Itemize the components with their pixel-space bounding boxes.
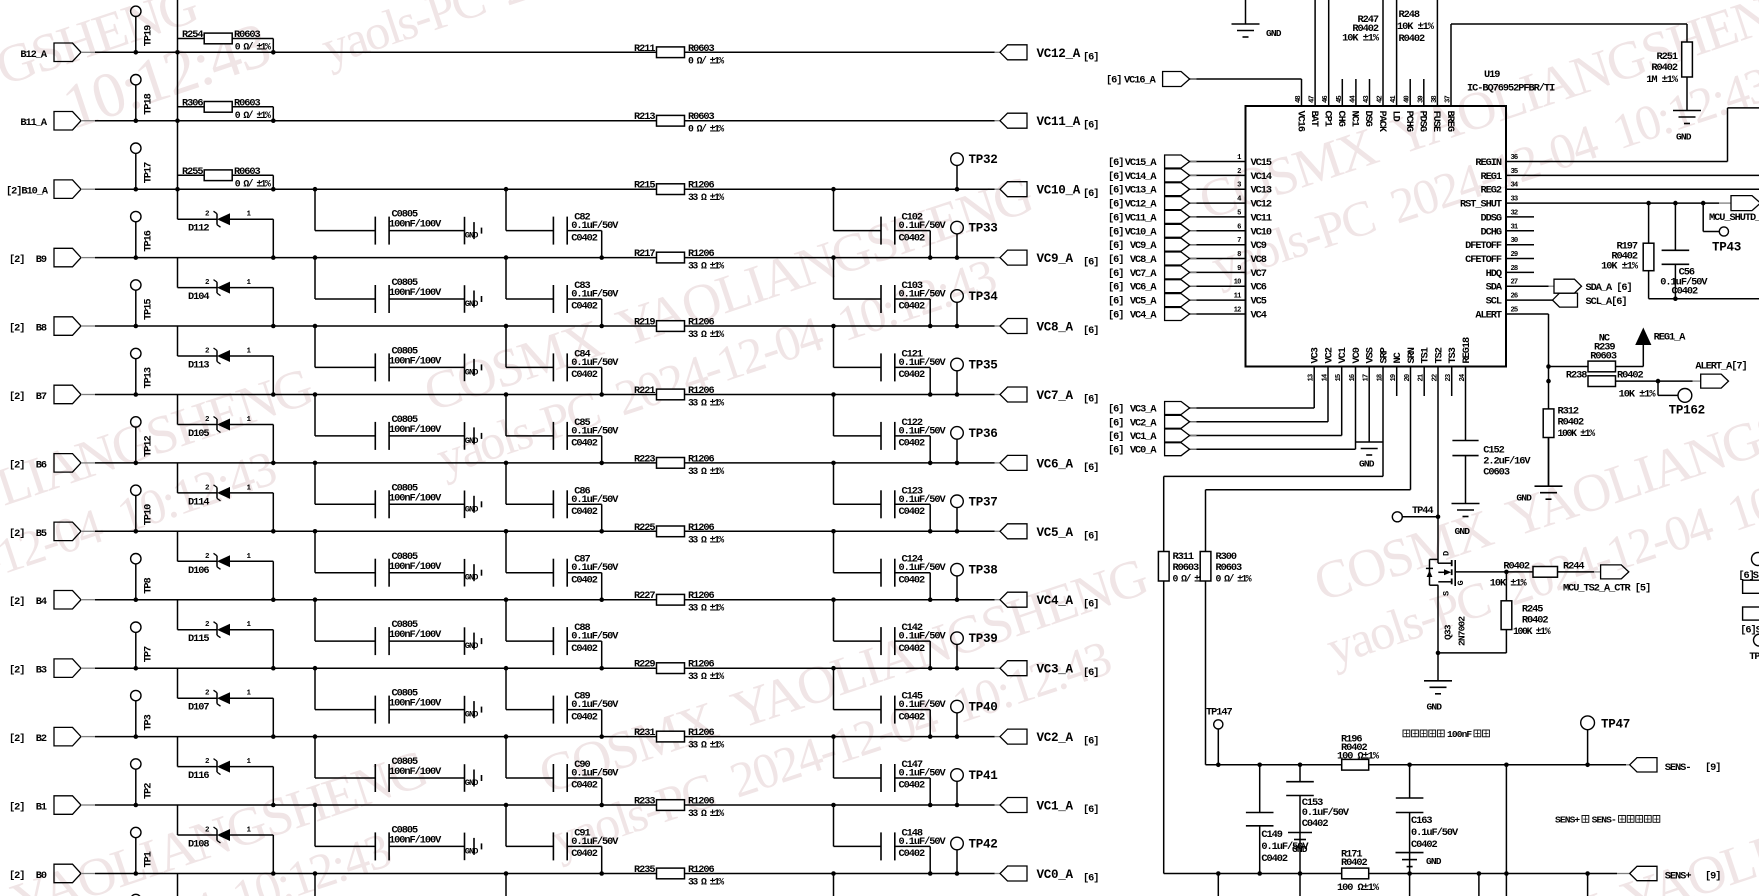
svg-text:TP43: TP43 [1712, 241, 1741, 255]
svg-text:TP38: TP38 [969, 564, 998, 578]
svg-text:R0402: R0402 [1522, 615, 1549, 627]
svg-text:9: 9 [1237, 265, 1241, 273]
svg-text:10: 10 [1234, 279, 1241, 287]
svg-text:B0: B0 [36, 870, 47, 882]
svg-text:TP17: TP17 [143, 162, 155, 183]
svg-text:REG1_A: REG1_A [1654, 331, 1687, 343]
svg-text:D108: D108 [188, 839, 209, 851]
svg-text:0 Ω/ ±1%: 0 Ω/ ±1% [688, 55, 724, 66]
svg-text:GND: GND [465, 710, 479, 720]
svg-text:R1206: R1206 [688, 864, 715, 876]
svg-text:0.1uF/50V: 0.1uF/50V [899, 836, 947, 848]
svg-text:[6]: [6] [1108, 404, 1123, 416]
svg-text:R254: R254 [182, 29, 203, 41]
svg-text:[6]: [6] [1108, 226, 1123, 238]
svg-text:REGIN: REGIN [1475, 157, 1502, 169]
svg-text:[6]: [6] [1106, 75, 1121, 87]
svg-text:TP33: TP33 [969, 222, 998, 236]
svg-text:R0402: R0402 [1617, 370, 1644, 382]
svg-text:C0402: C0402 [571, 369, 598, 381]
svg-text:[6]: [6] [1108, 185, 1123, 197]
svg-text:100nF/100V: 100nF/100V [389, 492, 442, 504]
svg-text:C0402: C0402 [899, 780, 926, 792]
svg-text:REG18: REG18 [1461, 337, 1473, 364]
svg-text:D115: D115 [188, 633, 209, 645]
svg-text:[2]: [2] [9, 596, 24, 608]
svg-text:0 Ω/ ±1%: 0 Ω/ ±1% [235, 178, 271, 189]
svg-text:VC9: VC9 [1251, 240, 1267, 252]
svg-text:33 Ω ±1%: 33 Ω ±1% [688, 877, 724, 888]
svg-text:1: 1 [247, 211, 252, 219]
svg-text:[6]: [6] [1108, 296, 1123, 308]
svg-text:[6]: [6] [1108, 268, 1123, 280]
svg-text:0.1uF/50V: 0.1uF/50V [571, 699, 619, 711]
svg-text:VC7_A: VC7_A [1037, 389, 1074, 403]
svg-text:R211: R211 [634, 43, 655, 55]
svg-text:DCHG: DCHG [1480, 226, 1501, 238]
svg-text:R0603: R0603 [234, 166, 261, 178]
svg-text:TS1: TS1 [1420, 347, 1432, 363]
svg-text:BAT: BAT [1308, 111, 1320, 127]
svg-text:ALERT_A[7]: ALERT_A[7] [1695, 361, 1746, 373]
svg-text:R0603: R0603 [688, 111, 715, 123]
svg-text:6: 6 [1237, 223, 1241, 231]
svg-text:VC1_A: VC1_A [1037, 800, 1074, 814]
svg-text:[2]: [2] [9, 733, 24, 745]
svg-text:VC2_A: VC2_A [1037, 731, 1074, 745]
svg-text:33 Ω ±1%: 33 Ω ±1% [688, 329, 724, 340]
svg-text:[6]: [6] [1108, 171, 1123, 183]
svg-text:VC13: VC13 [1251, 185, 1272, 197]
svg-text:VC1: VC1 [1337, 347, 1349, 363]
svg-text:[6]: [6] [1083, 257, 1098, 269]
svg-text:[6]: [6] [1108, 157, 1123, 169]
svg-text:2: 2 [205, 553, 210, 561]
svg-text:R1206: R1206 [688, 385, 715, 397]
svg-text:TP35: TP35 [969, 359, 998, 373]
svg-text:TP10: TP10 [143, 504, 155, 525]
svg-text:D107: D107 [188, 702, 209, 714]
svg-text:VC15: VC15 [1251, 157, 1272, 169]
svg-text:C0402: C0402 [899, 369, 926, 381]
svg-text:[6]: [6] [1108, 240, 1123, 252]
svg-text:D113: D113 [188, 360, 209, 372]
svg-text:2: 2 [205, 348, 210, 356]
svg-text:1: 1 [247, 279, 252, 287]
svg-text:C0402: C0402 [899, 711, 926, 723]
svg-text:C0402: C0402 [571, 574, 598, 586]
svg-text:PCHG: PCHG [1403, 111, 1415, 132]
svg-text:[6]: [6] [1108, 212, 1123, 224]
svg-text:VC7_A: VC7_A [1130, 268, 1158, 280]
svg-text:[6]: [6] [1108, 417, 1123, 429]
svg-text:B6: B6 [36, 459, 47, 471]
svg-text:R244: R244 [1563, 561, 1584, 573]
svg-text:1: 1 [247, 621, 252, 629]
svg-text:VC0_A: VC0_A [1130, 445, 1158, 457]
svg-text:VC4_A: VC4_A [1130, 310, 1158, 322]
svg-text:TP37: TP37 [969, 495, 998, 509]
svg-text:HDQ: HDQ [1486, 268, 1502, 280]
svg-text:VC16: VC16 [1294, 111, 1306, 132]
svg-text:2: 2 [205, 279, 210, 287]
svg-text:B1: B1 [36, 802, 47, 814]
svg-text:C0402: C0402 [899, 848, 926, 860]
svg-text:GND: GND [1427, 702, 1443, 713]
svg-text:R231: R231 [634, 727, 655, 739]
svg-text:0.1uF/50V: 0.1uF/50V [1411, 827, 1459, 839]
svg-text:2: 2 [205, 690, 210, 698]
svg-text:VC14_A: VC14_A [1125, 171, 1158, 183]
svg-text:R213: R213 [634, 111, 655, 123]
svg-text:0 Ω/ ±1%: 0 Ω/ ±1% [235, 110, 271, 121]
svg-text:VC3: VC3 [1310, 347, 1322, 363]
svg-text:B5: B5 [36, 528, 47, 540]
svg-text:[6]: [6] [1083, 736, 1098, 748]
svg-text:BREG: BREG [1444, 111, 1456, 132]
svg-text:[2]: [2] [9, 323, 24, 335]
svg-text:33 Ω ±1%: 33 Ω ±1% [688, 740, 724, 751]
svg-text:0.1uF/50V: 0.1uF/50V [899, 220, 947, 232]
svg-text:C0402: C0402 [571, 506, 598, 518]
svg-text:100nF: 100nF [1447, 729, 1472, 740]
svg-text:TP2: TP2 [143, 783, 155, 799]
svg-text:VC6: VC6 [1251, 282, 1267, 294]
svg-text:2: 2 [205, 211, 210, 219]
svg-text:TP: TP [1749, 651, 1759, 663]
svg-text:[2]: [2] [9, 870, 24, 882]
svg-text:G: G [1456, 581, 1466, 586]
svg-text:U19: U19 [1484, 69, 1500, 81]
svg-text:R1206: R1206 [688, 659, 715, 671]
svg-text:D106: D106 [188, 565, 209, 577]
svg-text:VC14: VC14 [1251, 171, 1272, 183]
svg-text:33 Ω ±1%: 33 Ω ±1% [688, 671, 724, 682]
svg-text:VC1_A: VC1_A [1130, 431, 1158, 443]
svg-text:[6]: [6] [1108, 431, 1123, 443]
svg-text:0.1uF/50V: 0.1uF/50V [899, 289, 947, 301]
svg-text:R1206: R1206 [688, 727, 715, 739]
svg-text:100nF/100V: 100nF/100V [389, 629, 442, 641]
svg-text:SCL_A[6]: SCL_A[6] [1586, 296, 1627, 308]
svg-text:R0603: R0603 [1216, 562, 1243, 574]
svg-text:SDA: SDA [1486, 282, 1503, 294]
svg-text:VC10_A: VC10_A [1037, 184, 1081, 198]
svg-text:5: 5 [1237, 209, 1241, 217]
svg-text:C0402: C0402 [1411, 839, 1438, 851]
svg-text:R1206: R1206 [688, 590, 715, 602]
svg-text:C163: C163 [1411, 815, 1432, 827]
svg-text:TP39: TP39 [969, 632, 998, 646]
svg-text:[6]: [6] [1108, 199, 1123, 211]
svg-text:VC5_A: VC5_A [1037, 526, 1074, 540]
svg-text:[2]: [2] [9, 802, 24, 814]
svg-text:VC0: VC0 [1351, 347, 1363, 363]
svg-text:2: 2 [205, 827, 210, 835]
svg-text:2: 2 [1237, 168, 1241, 176]
svg-text:0.1uF/50V: 0.1uF/50V [571, 836, 619, 848]
svg-text:ALERT: ALERT [1475, 310, 1502, 322]
svg-text:0.1uF/50V: 0.1uF/50V [899, 494, 947, 506]
svg-text:D: D [1442, 551, 1452, 556]
svg-text:[6]: [6] [1083, 394, 1098, 406]
svg-text:C0402: C0402 [899, 574, 926, 586]
svg-text:100 Ω±1%: 100 Ω±1% [1337, 750, 1380, 762]
svg-text:VC3_A: VC3_A [1130, 404, 1158, 416]
svg-text:TP34: TP34 [969, 290, 999, 304]
svg-text:100nF/100V: 100nF/100V [389, 219, 442, 231]
svg-text:R0402: R0402 [1399, 33, 1426, 45]
svg-text:TP8: TP8 [143, 577, 155, 593]
svg-text:0.1uF/50V: 0.1uF/50V [571, 768, 619, 780]
svg-text:TP18: TP18 [143, 93, 155, 114]
svg-text:B12_A: B12_A [20, 49, 48, 61]
svg-text:R217: R217 [634, 248, 655, 260]
svg-text:C0402: C0402 [571, 232, 598, 244]
svg-text:0.1uF/50V: 0.1uF/50V [899, 631, 947, 643]
svg-text:SCL: SCL [1486, 296, 1502, 308]
svg-text:100nF/100V: 100nF/100V [389, 287, 442, 299]
svg-text:100nF/100V: 100nF/100V [389, 766, 442, 778]
svg-text:R0402: R0402 [1341, 857, 1368, 869]
svg-text:C0603: C0603 [1483, 466, 1510, 478]
svg-text:VC4: VC4 [1251, 310, 1267, 322]
svg-text:D105: D105 [188, 428, 209, 440]
svg-text:33 Ω ±1%: 33 Ω ±1% [688, 808, 724, 819]
svg-text:100nF/100V: 100nF/100V [389, 835, 442, 847]
svg-text:TP42: TP42 [969, 838, 998, 852]
svg-text:B11_A: B11_A [20, 117, 48, 129]
svg-text:0 Ω/ ±1%: 0 Ω/ ±1% [235, 42, 271, 53]
svg-text:LD: LD [1389, 111, 1401, 122]
svg-text:CP1: CP1 [1322, 111, 1334, 127]
svg-text:R0603: R0603 [234, 29, 261, 41]
svg-text:TP12: TP12 [143, 436, 155, 457]
svg-text:VC0_A: VC0_A [1037, 868, 1074, 882]
svg-text:VC5_A: VC5_A [1130, 296, 1158, 308]
svg-text:REG2: REG2 [1480, 185, 1501, 197]
svg-text:100K ±1%: 100K ±1% [1513, 626, 1551, 637]
svg-text:R227: R227 [634, 590, 655, 602]
svg-text:10K ±1%: 10K ±1% [1490, 578, 1528, 590]
svg-text:DSG: DSG [1362, 111, 1374, 127]
svg-text:1: 1 [247, 758, 252, 766]
svg-text:TP13: TP13 [143, 367, 155, 388]
svg-text:0.1uF/50V: 0.1uF/50V [899, 425, 947, 437]
svg-text:B9: B9 [36, 254, 47, 266]
svg-text:B7: B7 [36, 391, 47, 403]
svg-text:C0402: C0402 [1302, 818, 1329, 830]
svg-text:GND: GND [1426, 856, 1442, 867]
svg-text:VC13_A: VC13_A [1125, 185, 1158, 197]
svg-text:C0402: C0402 [571, 848, 598, 860]
svg-text:VC4_A: VC4_A [1037, 594, 1074, 608]
svg-text:TP47: TP47 [1601, 718, 1630, 732]
svg-text:FUSE: FUSE [1430, 111, 1442, 132]
svg-text:GND: GND [465, 504, 479, 514]
svg-text:0 Ω/ ±1%: 0 Ω/ ±1% [688, 124, 724, 135]
svg-text:0.1uF/50V: 0.1uF/50V [899, 699, 947, 711]
svg-text:GND: GND [1516, 493, 1532, 504]
svg-text:C0402: C0402 [899, 232, 926, 244]
svg-text:GND: GND [1455, 526, 1471, 537]
svg-text:R255: R255 [182, 166, 203, 178]
svg-text:[2]: [2] [9, 254, 24, 266]
svg-text:TP36: TP36 [969, 427, 998, 441]
svg-text:R0402: R0402 [1503, 561, 1530, 573]
svg-text:VC11: VC11 [1251, 212, 1272, 224]
svg-text:[9]: [9] [1705, 762, 1720, 774]
svg-text:[6]: [6] [1083, 325, 1098, 337]
svg-text:VC9_A: VC9_A [1037, 252, 1074, 266]
svg-text:VSS: VSS [1365, 347, 1377, 363]
svg-text:[6]: [6] [1083, 120, 1098, 132]
svg-text:R1206: R1206 [688, 522, 715, 534]
svg-text:8: 8 [1237, 251, 1241, 259]
svg-text:R221: R221 [634, 385, 655, 397]
svg-text:10K ±1%: 10K ±1% [1619, 389, 1657, 401]
svg-text:CHG: CHG [1335, 111, 1347, 127]
svg-text:VC2_A: VC2_A [1130, 417, 1158, 429]
svg-text:C0402: C0402 [571, 301, 598, 313]
svg-text:RST_SHUT: RST_SHUT [1460, 199, 1502, 211]
svg-text:CFETOFF: CFETOFF [1465, 254, 1502, 266]
svg-text:C0402: C0402 [571, 711, 598, 723]
svg-text:VC12_A: VC12_A [1125, 199, 1158, 211]
svg-text:[6]: [6] [1108, 310, 1123, 322]
svg-text:VC7: VC7 [1251, 268, 1267, 280]
svg-text:R1206: R1206 [688, 180, 715, 192]
svg-text:[2]: [2] [9, 528, 24, 540]
svg-text:R1206: R1206 [688, 317, 715, 329]
svg-text:VC8: VC8 [1251, 254, 1267, 266]
svg-text:33 Ω ±1%: 33 Ω ±1% [688, 466, 724, 477]
svg-text:[6]: [6] [1108, 282, 1123, 294]
svg-text:[2]: [2] [9, 391, 24, 403]
svg-text:TP32: TP32 [969, 153, 998, 167]
svg-text:2: 2 [205, 416, 210, 424]
svg-text:TP44: TP44 [1412, 505, 1433, 517]
svg-text:D104: D104 [188, 291, 209, 303]
svg-text:B2: B2 [36, 733, 47, 745]
svg-text:R229: R229 [634, 659, 655, 671]
svg-text:DFETOFF: DFETOFF [1465, 240, 1502, 252]
svg-text:R0603: R0603 [688, 43, 715, 55]
svg-text:C149: C149 [1261, 829, 1282, 841]
svg-text:IC-BQ76952PFBR/TI: IC-BQ76952PFBR/TI [1467, 83, 1555, 95]
svg-text:DDSG: DDSG [1480, 212, 1501, 224]
svg-text:TP7: TP7 [143, 646, 155, 662]
svg-text:VC15_A: VC15_A [1125, 157, 1158, 169]
svg-text:VC11_A: VC11_A [1037, 115, 1081, 129]
svg-text:GND: GND [465, 846, 479, 856]
svg-text:R235: R235 [634, 864, 655, 876]
svg-text:R0603: R0603 [1590, 351, 1617, 363]
svg-text:S: S [1442, 591, 1452, 596]
svg-text:VC3_A: VC3_A [1037, 663, 1074, 677]
svg-text:1: 1 [247, 827, 252, 835]
svg-text:VC6_A: VC6_A [1130, 282, 1158, 294]
svg-text:VC10: VC10 [1251, 226, 1272, 238]
svg-text:1: 1 [247, 553, 252, 561]
svg-text:B8: B8 [36, 323, 47, 335]
svg-text:R219: R219 [634, 317, 655, 329]
svg-text:0.1uF/50V: 0.1uF/50V [571, 425, 619, 437]
svg-text:GND: GND [465, 231, 479, 241]
svg-text:100 Ω±1%: 100 Ω±1% [1337, 882, 1380, 894]
svg-text:[6]: [6] [1083, 530, 1098, 542]
svg-text:0.1uF/50V: 0.1uF/50V [571, 220, 619, 232]
svg-text:GND: GND [1266, 28, 1282, 39]
svg-text:VC10_A: VC10_A [1125, 226, 1158, 238]
svg-text:GND: GND [465, 778, 479, 788]
svg-text:TP16: TP16 [143, 230, 155, 251]
svg-text:100nF/100V: 100nF/100V [389, 424, 442, 436]
svg-text:R0402: R0402 [1651, 62, 1678, 74]
svg-text:[2]: [2] [9, 459, 24, 471]
svg-text:REG1: REG1 [1480, 171, 1501, 183]
svg-text:0 Ω/ ±1%: 0 Ω/ ±1% [1216, 573, 1252, 584]
svg-text:C0402: C0402 [571, 438, 598, 450]
svg-text:33 Ω ±1%: 33 Ω ±1% [688, 192, 724, 203]
svg-text:0.1uF/50V: 0.1uF/50V [571, 562, 619, 574]
svg-text:[6]: [6] [1083, 462, 1098, 474]
svg-text:[6]: [6] [1083, 51, 1098, 63]
svg-text:VC11_A: VC11_A [1125, 212, 1158, 224]
svg-text:VC8_A: VC8_A [1130, 254, 1158, 266]
svg-text:C0402: C0402 [571, 643, 598, 655]
svg-text:TP19: TP19 [143, 25, 155, 46]
svg-text:TP162: TP162 [1669, 404, 1705, 418]
svg-text:[6]: [6] [1083, 188, 1098, 200]
svg-text:1M ±1%: 1M ±1% [1646, 74, 1679, 86]
svg-text:VC12: VC12 [1251, 199, 1272, 211]
svg-text:VC8_A: VC8_A [1037, 321, 1074, 335]
svg-text:TS2: TS2 [1433, 347, 1445, 363]
svg-text:MCU_SHUTD_: MCU_SHUTD_ [1709, 212, 1759, 224]
svg-text:0.1uF/50V: 0.1uF/50V [571, 357, 619, 369]
svg-text:SRP: SRP [1378, 347, 1390, 363]
svg-text:[9]: [9] [1705, 871, 1720, 883]
svg-text:D116: D116 [188, 770, 209, 782]
svg-text:C0402: C0402 [1672, 285, 1699, 297]
svg-text:[6]: [6] [1108, 254, 1123, 266]
svg-text:NC: NC [1392, 352, 1404, 363]
svg-text:GND: GND [465, 436, 479, 446]
svg-text:D112: D112 [188, 223, 209, 235]
svg-text:2N7002: 2N7002 [1457, 616, 1468, 646]
svg-text:33 Ω ±1%: 33 Ω ±1% [688, 534, 724, 545]
svg-text:0.1uF/50V: 0.1uF/50V [899, 562, 947, 574]
svg-text:2: 2 [205, 484, 210, 492]
svg-text:33 Ω ±1%: 33 Ω ±1% [688, 603, 724, 614]
svg-text:7: 7 [1237, 237, 1241, 245]
svg-text:C0402: C0402 [899, 438, 926, 450]
svg-text:[6]: [6] [1083, 804, 1098, 816]
svg-text:10K ±1%: 10K ±1% [1601, 261, 1639, 273]
svg-text:[6]: [6] [1083, 667, 1098, 679]
svg-text:SENS-: SENS- [1665, 762, 1691, 774]
svg-text:TP1: TP1 [143, 851, 155, 867]
svg-text:SRN: SRN [1406, 347, 1418, 363]
svg-text:0.1uF/50V: 0.1uF/50V [571, 494, 619, 506]
svg-text:3: 3 [1237, 182, 1241, 190]
svg-text:C0402: C0402 [571, 780, 598, 792]
svg-text:PACK: PACK [1376, 111, 1388, 133]
svg-text:2: 2 [205, 758, 210, 766]
svg-text:0.1uF/50V: 0.1uF/50V [899, 357, 947, 369]
svg-text:10K ±1%: 10K ±1% [1342, 33, 1380, 45]
